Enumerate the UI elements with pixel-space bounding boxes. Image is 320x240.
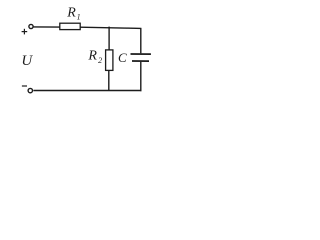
resistor R1 <box>60 23 80 29</box>
wire right branch upper (corner down to capacitor) <box>140 28 142 53</box>
wire R2 branch upper (tee to R2) <box>108 27 110 50</box>
resistor R2 <box>106 50 113 71</box>
svg-text:C: C <box>118 50 127 65</box>
capacitor C top plate <box>131 53 151 55</box>
svg-text:2: 2 <box>98 56 102 65</box>
minus sign <box>22 85 27 87</box>
svg-text:R: R <box>87 49 97 64</box>
wire bottom <box>33 90 141 92</box>
svg-text:1: 1 <box>77 13 81 22</box>
wire right branch lower (capacitor to bottom wire) <box>140 62 142 91</box>
wire top-left (terminal to R1) <box>34 26 60 28</box>
terminal + (top-left) <box>29 24 33 28</box>
terminal - (bottom-left) <box>28 88 32 92</box>
svg-text:R: R <box>66 6 76 21</box>
plus sign <box>22 29 28 35</box>
capacitor C bottom plate <box>132 60 149 62</box>
wire top (R1 to corner) <box>80 27 141 28</box>
wire R2 branch lower (R2 to bottom wire) <box>108 70 110 90</box>
svg-text:U: U <box>21 53 33 69</box>
